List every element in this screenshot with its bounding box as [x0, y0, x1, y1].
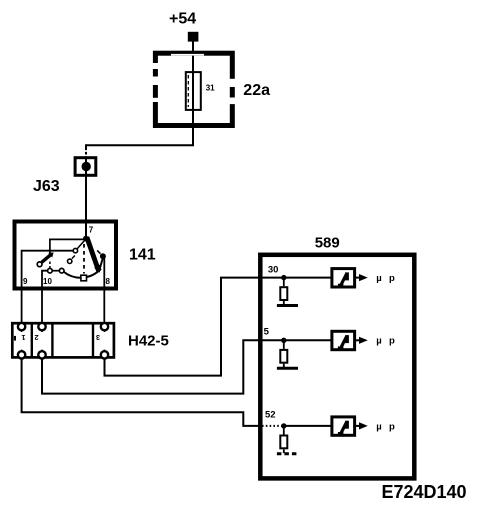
svg-text:µ: µ	[376, 421, 381, 432]
svg-text:1: 1	[21, 333, 25, 342]
svg-text:3: 3	[96, 333, 100, 342]
svg-text:8: 8	[106, 277, 111, 286]
svg-text:589: 589	[315, 235, 340, 252]
svg-text:2: 2	[34, 333, 38, 342]
svg-text:52: 52	[265, 409, 276, 420]
svg-text:30: 30	[268, 265, 279, 276]
svg-text:E724D140: E724D140	[382, 482, 467, 502]
svg-text:+54: +54	[169, 11, 196, 28]
svg-text:22a: 22a	[243, 82, 270, 99]
svg-text:p: p	[389, 421, 395, 432]
svg-text:5: 5	[264, 326, 270, 337]
svg-text:10: 10	[43, 277, 52, 286]
svg-text:µ: µ	[376, 273, 381, 284]
svg-text:J63: J63	[33, 178, 60, 195]
svg-text:p: p	[389, 336, 395, 347]
svg-text:7: 7	[89, 225, 94, 234]
svg-text:µ: µ	[376, 336, 381, 347]
svg-text:9: 9	[23, 277, 28, 286]
svg-text:141: 141	[129, 247, 156, 264]
svg-text:31: 31	[206, 83, 215, 92]
svg-text:p: p	[389, 273, 395, 284]
svg-text:H42-5: H42-5	[128, 333, 169, 350]
